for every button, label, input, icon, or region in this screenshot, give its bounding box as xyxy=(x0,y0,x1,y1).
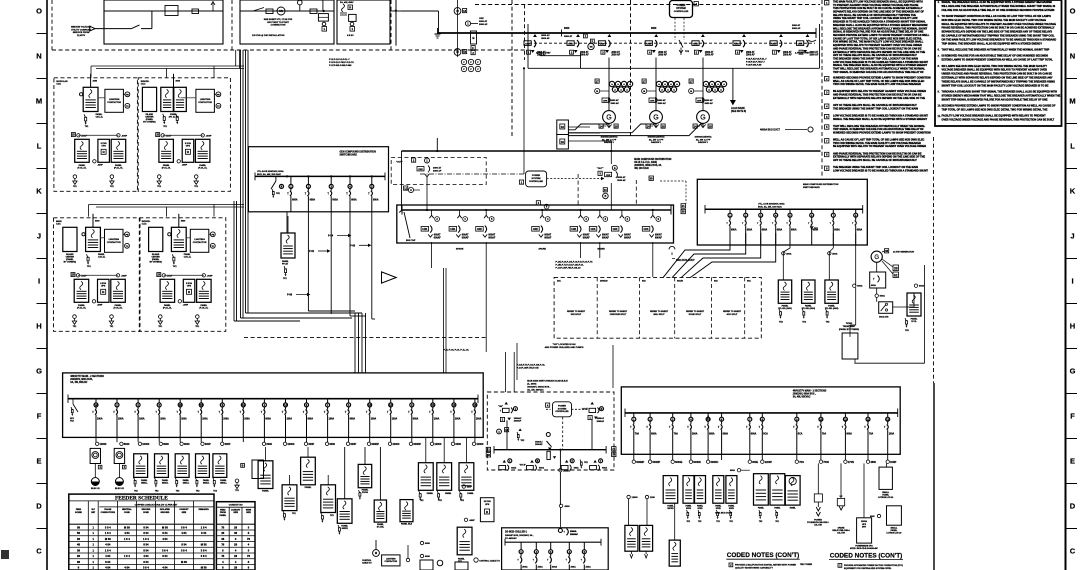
svg-text:CAC-1L: CAC-1L xyxy=(98,255,106,258)
svg-text:CONTROLLER: CONTROLLER xyxy=(674,11,689,13)
svg-text:O: O xyxy=(1070,7,1076,16)
svg-text:6000: 6000 xyxy=(425,556,431,558)
generator 2 breaker CRK xyxy=(649,98,656,102)
svg-text:38: 38 xyxy=(487,453,491,457)
svg-text:10000: 10000 xyxy=(100,443,108,446)
svg-text:PHASE REVERSAL THIS PROTECTION: PHASE REVERSAL THIS PROTECTION CAN BE BU… xyxy=(942,27,1055,30)
drawout truck dashed line xyxy=(529,42,815,44)
svg-text:7.: 7. xyxy=(938,55,940,58)
svg-text:(PANEL: (PANEL xyxy=(152,258,160,261)
svg-text:400A: 400A xyxy=(571,566,577,569)
TC time clock xyxy=(125,243,130,248)
relay rectangle in box A xyxy=(165,6,178,16)
tick left xyxy=(37,258,48,260)
svg-text:8 34: 8 34 xyxy=(181,543,187,547)
svg-text:SYSTEM: SYSTEM xyxy=(532,178,541,180)
generator 3 collector wires xyxy=(568,124,703,136)
wire transformer to contactor xyxy=(100,237,105,239)
MCC left breaker 19 xyxy=(474,399,476,403)
tier wire xyxy=(163,134,203,136)
PE cell photo control xyxy=(210,232,215,237)
svg-text:600A: 600A xyxy=(574,467,579,470)
svg-text:PROVIDE A MALFUNCTION DIGITAL: PROVIDE A MALFUNCTION DIGITAL METER WITH… xyxy=(735,564,796,567)
svg-text:I: I xyxy=(1071,277,1073,286)
svg-text:PANEL: PANEL xyxy=(305,486,312,489)
feeder node F12 xyxy=(346,442,349,445)
svg-text:(P-OL-OL: (P-OL-OL xyxy=(77,307,87,309)
svg-text:3 KVA: 3 KVA xyxy=(185,142,191,145)
svg-text:600A: 600A xyxy=(265,417,271,420)
svg-text:60A: 60A xyxy=(714,280,718,283)
svg-text:4800: 4800 xyxy=(870,461,876,464)
svg-text:SPARE: SPARE xyxy=(539,248,547,251)
svg-text:2000AC: 2000AC xyxy=(514,417,522,420)
svg-text:(PANEL BY OTHERS): (PANEL BY OTHERS) xyxy=(839,328,859,331)
coded note 8 keyed square xyxy=(825,152,829,156)
pothead circle box B xyxy=(298,0,303,5)
svg-text:TRIP SIGNAL IS REMOVED FAILURE: TRIP SIGNAL IS REMOVED FAILURE FOR AN AD… xyxy=(833,71,924,74)
svg-text:TREATMENT: TREATMENT xyxy=(843,325,856,328)
PSC dashed control wires xyxy=(674,18,676,40)
feeder node F16 xyxy=(430,442,433,445)
transformer PANEL ST-CABLES xyxy=(374,500,386,522)
tick left xyxy=(37,438,48,440)
wire transformer incoming xyxy=(178,214,180,228)
svg-text:GROUND: GROUND xyxy=(141,509,150,511)
svg-text:SEE SHEET UTL 17.25 FOR: SEE SHEET UTL 17.25 FOR xyxy=(264,19,293,21)
svg-text:A: A xyxy=(410,189,412,192)
gen feeder drop 1 routed left xyxy=(663,233,730,278)
MCC right breaker 6 xyxy=(721,413,723,417)
svg-text:PANEL: PANEL xyxy=(262,490,269,493)
svg-text:-600P: -600P xyxy=(207,275,213,277)
generator 3 feeder wire xyxy=(702,58,704,111)
svg-text:TRIP SIGNAL THE BREAKER SHALL: TRIP SIGNAL THE BREAKER SHALL ALSO BE EQ… xyxy=(942,42,1043,45)
svg-text:P-1SLF-7LF-1CLF-1SLF-OL: P-1SLF-7LF-1CLF-1SLF-OL xyxy=(517,364,546,366)
MCC right breaker 13 xyxy=(887,413,889,417)
svg-text:ST-CBL: ST-CBL xyxy=(377,526,385,528)
table column line xyxy=(155,0,570,501)
svg-text:CRK: CRK xyxy=(798,43,803,45)
svg-text:TK302: TK302 xyxy=(846,323,853,325)
generator 2 metering cluster xyxy=(656,81,661,86)
svg-text:PANEL: PANEL xyxy=(163,164,170,167)
transformer right of table C xyxy=(282,485,297,511)
MCC right breaker 2 xyxy=(649,413,651,417)
dashed wires right of K xyxy=(660,180,686,182)
svg-text:PP-1E: PP-1E xyxy=(282,264,288,266)
bus duct flag K right xyxy=(669,246,675,249)
dashed box tie breaker left xyxy=(391,157,486,184)
svg-text:SMALL: SMALL xyxy=(183,481,190,484)
svg-text:GEN COMPOUND DISTRIBUTION: GEN COMPOUND DISTRIBUTION xyxy=(340,152,377,154)
svg-text:3000 AT: 3000 AT xyxy=(792,24,801,27)
MCC right node 1 xyxy=(632,460,635,463)
lighting contactor xyxy=(105,89,124,112)
svg-text:6000: 6000 xyxy=(184,443,190,446)
disconnect switch in box A xyxy=(95,28,132,30)
svg-text:2PL-2SL (AHU): 2PL-2SL (AHU) xyxy=(825,307,839,310)
svg-text:ISOLATED: ISOLATED xyxy=(160,508,171,511)
svg-text:SIZE: SIZE xyxy=(246,512,251,514)
MCC right node 2 xyxy=(648,460,651,463)
lighting contactor xyxy=(190,229,209,252)
switchgear enclosure outline xyxy=(527,24,529,68)
svg-text:16: 16 xyxy=(561,125,565,129)
svg-text:600A: 600A xyxy=(834,228,840,231)
svg-text:P-84: P-84 xyxy=(328,235,334,238)
svg-text:SIX LAMPS SEE NCB DWG ELEC DET: SIX LAMPS SEE NCB DWG ELEC DETAIL TWO FO… xyxy=(942,65,1048,68)
panel transformer group right-3 xyxy=(713,476,724,504)
svg-text:600AF: 600AF xyxy=(583,236,590,239)
svg-text:UPS: UPS xyxy=(485,504,490,506)
wires bottom-left region xyxy=(344,447,346,499)
svg-text:REMARKS: REMARKS xyxy=(199,508,210,511)
wire contactor to cells xyxy=(209,233,211,235)
MCC right spare fuse xyxy=(707,415,710,420)
svg-text:B: B xyxy=(604,195,606,198)
svg-text:"OUT": "OUT" xyxy=(597,168,604,170)
svg-text:3 8 4: 3 8 4 xyxy=(181,525,187,529)
svg-text:SWITCHBOARD: SWITCHBOARD xyxy=(803,186,820,189)
svg-text:600A: 600A xyxy=(373,199,379,202)
svg-text:SPARE: SPARE xyxy=(597,248,605,251)
svg-text:SMALL: SMALL xyxy=(203,481,210,484)
svg-text:LIGHTING: LIGHTING xyxy=(109,99,120,101)
svg-text:600A: 600A xyxy=(308,417,314,420)
svg-text:COPPER CONDUCTORS (70' C) PER: COPPER CONDUCTORS (70' C) PER SET xyxy=(135,504,178,506)
generator 1 collector wires xyxy=(568,124,609,130)
svg-text:SIZE: SIZE xyxy=(182,512,187,514)
svg-text:SPKD: SPKD xyxy=(729,508,735,510)
power system controller PSC top xyxy=(670,1,693,18)
feeder drop K5 xyxy=(580,242,582,258)
svg-text:IS REMOVED FAILURE FOR AN ADJU: IS REMOVED FAILURE FOR AN ADJUSTABLE TIM… xyxy=(942,55,1049,58)
svg-text:3000 AF: 3000 AF xyxy=(617,179,626,182)
svg-text:(P-OL-OL: (P-OL-OL xyxy=(163,307,173,309)
svg-text:TWO FOR WIRING DETAIL THE MAIN: TWO FOR WIRING DETAIL THE MAIN FACILITY … xyxy=(833,83,921,86)
svg-text:600A: 600A xyxy=(791,228,797,231)
tick left xyxy=(37,168,48,170)
svg-text:"OUT": "OUT" xyxy=(396,162,403,164)
svg-text:4 84: 4 84 xyxy=(105,554,111,558)
svg-text:100A: 100A xyxy=(476,417,482,420)
svg-text:100A ATS: 100A ATS xyxy=(879,316,889,319)
svg-text:8 34: 8 34 xyxy=(105,560,111,564)
PE cell photo control xyxy=(125,92,130,97)
tick right xyxy=(1066,438,1078,440)
svg-text:CRK: CRK xyxy=(771,43,776,45)
svg-text:LIGHTING: LIGHTING xyxy=(200,99,211,101)
svg-text:600P: 600P xyxy=(225,443,231,446)
misc bottom middle symbols xyxy=(420,560,433,570)
svg-text:CONNECTION: CONNECTION xyxy=(271,25,286,27)
svg-text:12000: 12000 xyxy=(632,497,639,499)
svg-text:POWER: POWER xyxy=(558,406,566,408)
svg-text:LOAD BANK: LOAD BANK xyxy=(731,107,745,110)
coded note 4 keyed square xyxy=(825,104,829,108)
tick right xyxy=(1066,393,1078,395)
feeder drop K8 xyxy=(652,242,654,277)
svg-text:(P-OL-OL: (P-OL-OL xyxy=(114,167,124,169)
feeder node F11 xyxy=(325,442,328,445)
svg-text:12,470V: 12,470V xyxy=(77,34,86,37)
svg-text:ISLAND: ISLAND xyxy=(66,253,74,256)
MCC right node 12 xyxy=(886,460,889,463)
svg-text:200A: 200A xyxy=(223,417,229,420)
sub panel transformer B xyxy=(197,279,212,302)
dashed boundary above MCC left xyxy=(244,336,487,338)
svg-text:-600P: -600P xyxy=(206,135,212,137)
switch blade box B xyxy=(253,8,264,12)
table column line xyxy=(117,0,570,501)
svg-text:200/530V, 4000A BUS, 3A: 200/530V, 4000A BUS, 3A xyxy=(634,164,662,167)
TC time clock xyxy=(125,103,130,108)
tier wire xyxy=(164,274,204,276)
svg-text:PANEL: PANEL xyxy=(98,253,105,256)
riser wire to main bus xyxy=(438,11,440,33)
svg-text:CRK: CRK xyxy=(697,100,702,102)
feeder node F17 xyxy=(451,442,454,445)
svg-text:2200P: 2200P xyxy=(765,461,773,464)
transformer right of table B xyxy=(301,457,316,485)
switchboard K feeder breaker 8 xyxy=(652,210,654,216)
svg-text:600AT: 600AT xyxy=(462,234,469,237)
feeder drop K6 xyxy=(599,242,601,258)
panel ELE left edge xyxy=(400,500,413,522)
MCC right breaker 7 xyxy=(749,413,751,417)
lighting contactor bottom xyxy=(373,550,380,557)
svg-text:600A: 600A xyxy=(919,285,925,288)
MCC right node 11 xyxy=(866,460,869,463)
svg-text:3000 AT: 3000 AT xyxy=(611,99,620,102)
gen feeder drop 7 xyxy=(855,233,857,286)
node 600A stub xyxy=(737,469,740,472)
svg-text:CRK: CRK xyxy=(479,18,484,20)
svg-text:600AT: 600AT xyxy=(544,234,551,237)
generator 1 feeder wire xyxy=(608,58,610,111)
svg-text:8 34: 8 34 xyxy=(143,560,149,564)
svg-text:TK2: TK2 xyxy=(759,521,762,523)
tie to bus wires xyxy=(506,420,508,449)
svg-text:-600P: -600P xyxy=(121,135,127,137)
feeder node F14 xyxy=(388,442,391,445)
svg-text:SMALL: SMALL xyxy=(141,481,148,484)
svg-text:38: 38 xyxy=(650,176,654,180)
svg-text:UPS: UPS xyxy=(187,286,192,288)
UPS 3KVA box xyxy=(183,279,195,302)
tier wire xyxy=(78,274,118,276)
svg-text:LUTRON LCP-20: LUTRON LCP-20 xyxy=(878,497,893,499)
switchgear feeder breaker 4 xyxy=(654,34,658,37)
MCC left breaker 3 xyxy=(137,399,139,403)
svg-text:P-1XLF-OLF-1XLF-OLF-1X7-OLF-7X: P-1XLF-OLF-1XLF-OLF-1X7-OLF-7X xyxy=(556,262,593,264)
svg-text:SIZE: SIZE xyxy=(233,512,238,514)
svg-text:2000A: 2000A xyxy=(570,530,577,533)
svg-text:CAC: CAC xyxy=(56,83,61,86)
svg-text:(PANEL: (PANEL xyxy=(66,258,74,261)
svg-text:2000 AF: 2000 AF xyxy=(580,54,589,57)
svg-text:CONTACTOR: CONTACTOR xyxy=(385,560,398,563)
svg-text:20A: 20A xyxy=(557,280,561,283)
svg-text:600A: 600A xyxy=(651,432,657,435)
svg-text:4 84: 4 84 xyxy=(105,566,111,570)
PE cell photo control xyxy=(125,232,130,237)
svg-text:SPKD: SPKD xyxy=(716,508,722,510)
svg-text:CODED NOTES (CON'T): CODED NOTES (CON'T) xyxy=(830,553,903,560)
coded note 1 keyed square xyxy=(825,1,829,5)
generator 3 metering cluster xyxy=(703,81,708,86)
svg-text:CRK: CRK xyxy=(568,43,573,45)
svg-text:CONTACTOR: CONTACTOR xyxy=(193,241,207,244)
svg-text:5XX SPLIT: 5XX SPLIT xyxy=(571,314,582,316)
switchgear feeder breaker 7 xyxy=(779,34,783,37)
svg-text:M: M xyxy=(36,97,42,106)
svg-text:6000: 6000 xyxy=(329,443,335,446)
svg-text:TK2: TK2 xyxy=(698,521,701,523)
tick right xyxy=(1066,483,1078,485)
coded notes right items xyxy=(838,564,842,568)
svg-text:3000 AF: 3000 AF xyxy=(705,102,714,105)
panel transformer group right-1 xyxy=(663,476,678,504)
svg-text:-600AC: -600AC xyxy=(563,469,570,472)
tick right xyxy=(1066,123,1078,125)
dashed boundary PSC section xyxy=(487,392,614,470)
MCC left breaker 7 xyxy=(221,399,223,403)
switchgear feeder breaker 3 xyxy=(608,34,612,37)
svg-text:100A: 100A xyxy=(160,417,166,420)
svg-text:600MP: 600MP xyxy=(636,461,644,464)
svg-text:POWER: POWER xyxy=(677,5,686,7)
circled tie device xyxy=(465,21,470,26)
dashed separator notes column xyxy=(821,0,823,178)
lighting contactor xyxy=(105,229,124,252)
svg-text:(P-OL-OL: (P-OL-OL xyxy=(114,307,124,309)
svg-text:PANEL: PANEL xyxy=(79,164,86,167)
svg-text:8 34: 8 34 xyxy=(143,525,149,529)
svg-text:CRK: CRK xyxy=(693,43,698,45)
panel transformer group right-2 xyxy=(683,476,694,504)
gen switchboard breaker 7 xyxy=(832,209,834,213)
svg-text:8 34: 8 34 xyxy=(143,548,149,552)
right section solid boundary xyxy=(933,383,935,570)
svg-text:WIRE: WIRE xyxy=(246,509,252,511)
MCC left breaker 18 xyxy=(453,399,455,403)
svg-text:H: H xyxy=(1070,322,1075,331)
svg-text:MCB MAIN SWITCHGEAR DS-MCB-E-E: MCB MAIN SWITCHGEAR DS-MCB-E-E xyxy=(527,380,568,383)
svg-text:CRK: CRK xyxy=(644,229,649,231)
svg-text:FEED: FEED xyxy=(76,509,82,511)
svg-text:CONDUIT: CONDUIT xyxy=(179,509,189,511)
node left of transformer xyxy=(168,233,171,236)
svg-text:600AT: 600AT xyxy=(655,234,662,237)
bundle drop to MCC left top xyxy=(354,313,356,373)
svg-text:PHASE: PHASE xyxy=(104,508,112,511)
MCC left bus xyxy=(68,398,478,400)
generator G3 xyxy=(697,111,710,124)
svg-text:G: G xyxy=(874,255,879,261)
generator 2 feeder wire xyxy=(655,58,657,111)
gen2 node xyxy=(876,288,878,294)
svg-text:E: E xyxy=(1070,457,1075,466)
svg-text:SPKD: SPKD xyxy=(686,508,692,510)
feeder node 600P a xyxy=(77,134,80,137)
svg-text:SECONDS PROVIDE EXTEND LAMPS T: SECONDS PROVIDE EXTEND LAMPS TO SHOW PRE… xyxy=(942,105,1056,108)
svg-text:CONDUIT NO: CONDUIT NO xyxy=(229,505,243,507)
tick right xyxy=(1066,33,1078,35)
svg-text:1 8 4: 1 8 4 xyxy=(124,537,130,541)
svg-text:M 38: M 38 xyxy=(124,525,130,529)
svg-text:L: L xyxy=(37,142,42,151)
svg-text:CONTACTOR: CONTACTOR xyxy=(107,101,121,104)
fuse with TK2 mid xyxy=(519,428,522,431)
svg-text:TK2: TK2 xyxy=(196,491,200,493)
svg-text:FAILURE FOR AN ADJUSTABLE TIME: FAILURE FOR AN ADJUSTABLE TIME DELAY OF … xyxy=(942,9,1055,12)
svg-text:M 38: M 38 xyxy=(162,525,168,529)
svg-text:8CA: 8CA xyxy=(798,432,803,435)
svg-text:3000 AF: 3000 AF xyxy=(792,27,801,30)
feeder node 600P b xyxy=(178,300,181,303)
gen switchboard breaker 3 xyxy=(760,209,762,213)
fuse under transformer T1 xyxy=(172,254,173,257)
svg-text:400A: 400A xyxy=(522,566,528,569)
svg-text:P-88: P-88 xyxy=(287,294,293,297)
svg-text:100A: 100A xyxy=(139,417,145,420)
svg-text:PANEL: PANEL xyxy=(78,304,85,307)
svg-text:PANEL: PANEL xyxy=(199,164,206,167)
svg-text:TK2: TK2 xyxy=(176,491,180,493)
node left of transformer xyxy=(80,93,83,96)
svg-text:(A. 4000): (A. 4000) xyxy=(527,383,536,386)
sub panel transformer B xyxy=(111,139,126,162)
chiller MCC bus xyxy=(505,541,601,543)
svg-text:TK2: TK2 xyxy=(460,500,464,502)
svg-text:POWER: POWER xyxy=(532,175,541,177)
collector wires from generators xyxy=(568,126,590,128)
svg-text:2SPKD: 2SPKD xyxy=(667,508,674,510)
svg-text:SYSTEM: SYSTEM xyxy=(558,408,567,410)
svg-text:CODED NOTES (CON'T): CODED NOTES (CON'T) xyxy=(727,552,800,559)
island center panel (by others) xyxy=(149,227,163,251)
svg-text:CONTACTOR: CONTACTOR xyxy=(107,241,121,244)
svg-text:ELEV. #2: ELEV. #2 xyxy=(115,488,125,490)
MCC left breaker 4 xyxy=(158,399,160,403)
svg-text:M 38: M 38 xyxy=(181,560,187,564)
TC time clock xyxy=(216,103,221,108)
transformer pair below nodes xyxy=(625,525,638,551)
transformer PANEL PROG xyxy=(358,464,372,487)
MCC right node 10 xyxy=(844,460,847,463)
svg-text:TK2: TK2 xyxy=(729,521,732,523)
svg-text:LIGHTING: LIGHTING xyxy=(386,559,396,561)
wires ATS to panel xyxy=(893,306,914,308)
svg-text:2000 AT: 2000 AT xyxy=(783,51,792,54)
svg-text:QUALITY MONITORING CAPABILITY: QUALITY MONITORING CAPABILITY xyxy=(735,567,773,570)
svg-text:4 84: 4 84 xyxy=(124,566,130,570)
svg-text:3 KVA: 3 KVA xyxy=(101,142,107,145)
coded note 3 keyed square xyxy=(825,90,829,94)
svg-text:PANEL: PANEL xyxy=(377,523,384,526)
switchgear feeder breaker 6 xyxy=(742,34,746,37)
svg-text:ISLAND: ISLAND xyxy=(152,253,160,256)
MCC right node 7 xyxy=(761,460,764,463)
svg-text:6.5 SC: 6.5 SC xyxy=(347,35,354,37)
wire contactor to cells xyxy=(123,233,125,235)
svg-text:600A: 600A xyxy=(709,432,715,435)
svg-text:HUNDRED SECONDS PROVIDE EXTEND: HUNDRED SECONDS PROVIDE EXTEND LAMPS TO … xyxy=(833,132,931,135)
svg-text:CAC-1L: CAC-1L xyxy=(96,115,104,118)
svg-text:400A: 400A xyxy=(552,566,558,569)
